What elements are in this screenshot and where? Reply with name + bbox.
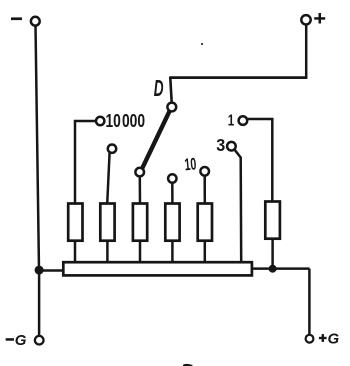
svg-text:1: 1: [228, 113, 235, 130]
svg-text:G: G: [328, 331, 340, 348]
contact 2 circle: [108, 145, 116, 153]
svg-text:10 000: 10 000: [106, 110, 146, 131]
resistor 4: [165, 204, 179, 241]
terminal +G circle: [306, 335, 314, 343]
contact 3 circle: [227, 142, 236, 151]
wire plus terminal down: [305, 25, 308, 78]
label +G: [319, 331, 340, 348]
wire contact 4 to resistor 4: [171, 182, 174, 204]
svg-text:3: 3: [216, 135, 225, 155]
node left junction: [35, 266, 44, 275]
wire contact 10000 to resistor 1: [75, 121, 96, 204]
wire shunt box to right corner: [252, 267, 310, 270]
wire left vertical (minus terminal to left junction): [36, 26, 40, 270]
label plus: [314, 13, 325, 24]
contact 10000 circle: [96, 117, 104, 125]
switch arm D: [142, 111, 170, 169]
node right junction: [269, 265, 277, 273]
label -G: [6, 332, 27, 349]
wire contact 1 to resistor 6: [247, 119, 272, 202]
wire right corner down to +G terminal: [308, 269, 311, 335]
speck artifact: [201, 43, 203, 45]
resistor 1: [68, 204, 82, 241]
terminal -G circle: [35, 336, 44, 345]
svg-text:G: G: [15, 332, 27, 349]
wire resistor 4 to shunt box: [171, 241, 174, 262]
wire resistor 2 to shunt box: [106, 241, 109, 262]
wire resistor 6 to right junction: [271, 239, 274, 269]
switch pivot circle: [167, 103, 176, 112]
wire contact 2 to resistor 2: [107, 152, 109, 204]
contact 1 circle: [239, 116, 248, 125]
caption smudge at bottom edge: [183, 364, 193, 366]
resistor 5: [198, 204, 212, 241]
wire contact 3 tap to shunt box: [234, 149, 241, 262]
svg-text:D: D: [154, 75, 164, 101]
svg-text:10: 10: [184, 154, 197, 174]
shunt resistor box: [63, 262, 252, 275]
wire contact 3rd position to resistor 3: [139, 176, 142, 204]
resistor 6: [265, 202, 280, 239]
terminal plus circle: [301, 15, 310, 24]
wire contact 10 to resistor 5: [203, 175, 206, 204]
wire resistor 1 to shunt box: [74, 241, 77, 262]
wire top horizontal to switch: [170, 76, 308, 79]
wire resistor 5 to shunt box: [204, 241, 207, 262]
resistor 3: [133, 204, 147, 241]
wire left junction to shunt box: [39, 269, 63, 272]
wire switch riser: [170, 77, 172, 103]
contact 4 circle: [168, 174, 176, 182]
contact 10 circle: [200, 167, 209, 176]
wire left junction down to -G terminal: [38, 270, 41, 336]
terminal minus circle: [31, 17, 40, 26]
resistor 2: [100, 204, 114, 241]
contact 3rd position circle (under arm): [135, 168, 144, 177]
wire resistor 3 to shunt box: [139, 241, 142, 262]
terminal minus label: [11, 17, 22, 20]
